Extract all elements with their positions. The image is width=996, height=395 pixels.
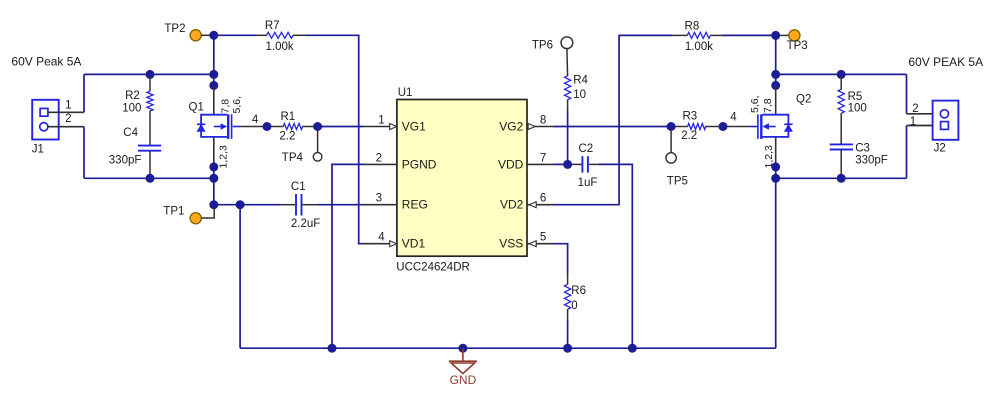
U1 pin 4 input arrow	[390, 241, 397, 247]
junction GND symbol node	[458, 344, 467, 353]
svg-text:J2: J2	[934, 143, 946, 155]
svg-text:5,6,: 5,6,	[231, 96, 243, 114]
svg-text:1: 1	[378, 115, 384, 127]
resistor R4 zigzag	[565, 76, 571, 100]
junction TP2 node	[209, 31, 218, 40]
svg-text:VD1: VD1	[402, 237, 426, 251]
svg-text:C2: C2	[579, 143, 594, 155]
Q2 gate lead	[749, 126, 757, 128]
wire VG2 pin to TP5 node	[554, 126, 668, 128]
test point TP2 pad	[190, 30, 201, 41]
C1 left lead	[281, 204, 295, 206]
svg-text:TP1: TP1	[163, 206, 184, 218]
connector J1 pin1 square pad	[40, 108, 48, 116]
junction C3 bottom on rail	[837, 174, 846, 183]
TP5 stub	[670, 131, 672, 153]
wire VD2 to R8	[554, 35, 673, 204]
wire TP2 stub	[201, 34, 210, 36]
wire Q2 source column	[775, 167, 777, 348]
R7 right lead	[293, 34, 306, 36]
svg-text:330pF: 330pF	[109, 154, 142, 166]
svg-text:2.2: 2.2	[681, 130, 697, 142]
R5 top lead	[840, 74, 842, 89]
test point TP5 pad	[666, 153, 676, 163]
wire bottom rail right	[776, 177, 907, 179]
Q2 gate bar	[757, 114, 759, 139]
R3 left lead	[676, 126, 688, 128]
junction Q2 gate node	[719, 122, 728, 131]
svg-text:5: 5	[540, 232, 546, 244]
wire J1 pin1 riser	[83, 74, 85, 112]
svg-text:C1: C1	[291, 181, 306, 193]
resistor R1 zigzag	[283, 124, 302, 130]
wire J2 pin1 dropper	[906, 126, 908, 179]
Q2 body-diode cathode bar	[784, 123, 792, 125]
junction drain column at top rail	[209, 70, 218, 79]
svg-text:R5: R5	[848, 91, 863, 103]
svg-text:VD2: VD2	[500, 198, 524, 212]
junction R2 top on rail	[146, 70, 155, 79]
capacitor C3 plates	[830, 144, 853, 149]
U1 pin 5 lead	[527, 243, 554, 245]
svg-text:TP3: TP3	[787, 40, 808, 52]
wire top rail right	[776, 73, 907, 75]
R1 right lead	[302, 126, 313, 128]
wire R7 to VD1	[306, 35, 364, 243]
svg-text:GND: GND	[450, 373, 477, 387]
junction PGND at bus	[328, 344, 337, 353]
wire J1 pin1 stub	[48, 111, 84, 113]
svg-text:6: 6	[540, 193, 546, 205]
svg-text:7,8: 7,8	[762, 98, 774, 113]
svg-text:2: 2	[376, 152, 382, 164]
svg-text:Q1: Q1	[189, 102, 204, 114]
svg-text:100: 100	[122, 102, 141, 114]
svg-text:1.00k: 1.00k	[266, 41, 294, 53]
connector J2 body	[933, 101, 959, 140]
junction C4 bottom on rail	[146, 174, 155, 183]
svg-text:4: 4	[252, 114, 259, 126]
R3 right lead	[706, 126, 719, 128]
wire C2 to bus	[599, 164, 632, 348]
wire J2 pin2 riser	[906, 74, 908, 113]
R8 left lead	[673, 34, 688, 36]
svg-text:Q2: Q2	[796, 93, 811, 105]
wire R2-C4 link	[149, 111, 151, 145]
svg-text:R7: R7	[265, 20, 280, 32]
connector J1 pin2 round pad	[40, 123, 48, 131]
wire J2 pin1 stub	[907, 125, 941, 127]
test point TP1 pad	[190, 213, 201, 224]
R1 left lead	[271, 126, 283, 128]
connector J2 pin2 round pad	[940, 110, 948, 118]
Q1 drain pin lead	[213, 85, 215, 114]
R4 bottom lead	[567, 100, 569, 111]
transistor Q1 body outline	[201, 115, 227, 137]
resistor R6 zigzag	[565, 284, 571, 309]
wire C1 to REG pin	[318, 204, 364, 206]
junction Q2 column at bottom rail	[771, 174, 780, 183]
R6 bottom lead	[567, 309, 569, 321]
Q1 source pin lead	[213, 137, 215, 167]
svg-text:4: 4	[378, 232, 385, 244]
U1 pin 2 lead	[363, 163, 397, 165]
Q1 gate bar	[231, 114, 233, 139]
wire R2 top lead	[149, 74, 151, 91]
svg-text:TP5: TP5	[667, 175, 688, 187]
svg-text:R2: R2	[125, 90, 140, 102]
junction C2 column at bus	[628, 344, 637, 353]
svg-text:2: 2	[912, 103, 918, 115]
svg-text:60V PEAK 5A: 60V PEAK 5A	[908, 55, 983, 69]
svg-text:330pF: 330pF	[855, 155, 888, 167]
U1 pin 8 lead	[527, 126, 554, 128]
junction source column at bottom rail	[209, 174, 218, 183]
svg-text:UCC24624DR: UCC24624DR	[396, 261, 470, 273]
junction Q2 drain node	[771, 81, 780, 90]
junction R5 top on rail	[837, 70, 846, 79]
C2 left lead	[572, 163, 582, 165]
Q2 channel bar	[760, 114, 762, 139]
wire TP1 node to C1 node	[214, 204, 240, 206]
Q1 channel bar	[227, 114, 229, 139]
connector J2 pin1 square pad	[941, 122, 949, 130]
wire C1 node to C1	[240, 204, 281, 206]
svg-text:0: 0	[571, 300, 577, 312]
wire Q1 source column	[213, 167, 215, 205]
svg-text:U1: U1	[398, 87, 413, 99]
R8 right lead	[710, 34, 722, 36]
ground symbol	[449, 348, 477, 373]
svg-text:R1: R1	[280, 111, 295, 123]
TP4 stub	[317, 131, 319, 153]
U1 pin 1 lead	[363, 126, 397, 128]
wire Q2 drain column	[775, 35, 777, 87]
R7 left lead	[256, 34, 266, 36]
junction Q1 source node	[209, 162, 218, 171]
svg-text:1,2,3: 1,2,3	[217, 145, 229, 169]
wire R8 to TP3 node	[723, 34, 776, 36]
C1 right lead	[303, 204, 318, 206]
resistor R5 zigzag	[838, 89, 844, 113]
U1 pin 6 lead	[527, 204, 554, 206]
svg-text:1: 1	[65, 100, 71, 112]
junction VDD node	[563, 160, 572, 169]
svg-text:VDD: VDD	[498, 157, 524, 171]
svg-text:5,6,: 5,6,	[749, 95, 761, 113]
svg-text:VG2: VG2	[499, 120, 523, 134]
U1 pin 5 input arrow	[529, 241, 536, 247]
svg-text:7,8: 7,8	[220, 99, 232, 114]
wire Q1 gate to node	[240, 126, 263, 128]
resistor R7 zigzag	[267, 32, 294, 38]
svg-text:7: 7	[540, 152, 546, 164]
wire C4 bottom lead	[149, 151, 151, 178]
Q1 gate lead	[233, 126, 241, 128]
connector J1 body	[32, 100, 59, 140]
transistor Q2 body outline	[763, 115, 789, 137]
junction Q1 drain node	[209, 81, 218, 90]
U1 pin 3 lead	[363, 204, 397, 206]
wire TP4 node to VG1 pin	[318, 126, 364, 128]
wire J2 pin2 stub	[907, 113, 941, 115]
svg-text:PGND: PGND	[402, 157, 437, 171]
resistor R3 zigzag	[688, 124, 706, 130]
capacitor C4 plates	[138, 146, 161, 151]
Q2 source arrow	[762, 123, 775, 129]
TP1 stub	[201, 207, 214, 219]
Q1 source arrow	[214, 123, 227, 129]
svg-text:C4: C4	[123, 127, 138, 139]
resistor R2 zigzag	[147, 91, 153, 111]
capacitor C2 plates	[582, 156, 588, 172]
svg-text:TP2: TP2	[164, 23, 185, 35]
junction C1 left node	[236, 200, 245, 209]
U1 pin 1 input arrow	[390, 124, 397, 130]
svg-text:2.2: 2.2	[279, 131, 295, 143]
U1 pin 6 input arrow	[529, 202, 536, 208]
wire bottom rail left	[84, 177, 214, 179]
wire GND bus	[240, 347, 776, 349]
svg-text:1: 1	[910, 116, 916, 128]
Q1 body-diode cathode bar	[197, 123, 205, 125]
junction R6 at bus	[563, 344, 572, 353]
svg-text:TP6: TP6	[532, 40, 553, 52]
wire VDD pin to node	[554, 163, 568, 165]
svg-text:3: 3	[376, 193, 382, 205]
svg-text:R3: R3	[682, 111, 697, 123]
svg-text:R6: R6	[571, 285, 586, 297]
C1 node dropper to bus	[239, 205, 241, 349]
junction Q1 gate node	[263, 122, 272, 131]
wire J1 pin2 dropper	[83, 127, 85, 179]
svg-text:10: 10	[573, 89, 586, 101]
junction TP4 node	[313, 122, 322, 131]
U1 pin 4 lead	[363, 243, 397, 245]
test point TP3 pad	[789, 30, 800, 41]
R6 top lead	[567, 274, 569, 285]
C2 right lead	[589, 163, 599, 165]
svg-text:R8: R8	[685, 21, 700, 33]
TP3 stub	[780, 34, 789, 36]
wire R6 to bus	[567, 321, 569, 348]
svg-text:2.2uF: 2.2uF	[291, 218, 320, 230]
U1 pin 7 lead	[527, 163, 554, 165]
svg-text:R4: R4	[573, 74, 588, 86]
svg-text:8: 8	[540, 115, 546, 127]
junction Q2 source node	[771, 162, 780, 171]
Q2 source pin lead	[775, 137, 777, 167]
svg-text:J1: J1	[32, 144, 44, 156]
junction TP3 node	[771, 31, 780, 40]
svg-text:TP4: TP4	[282, 152, 304, 164]
test point TP6 pad	[561, 37, 573, 49]
capacitor C1 plates	[296, 194, 302, 216]
wire Q2 gate node to gate	[728, 126, 750, 128]
junction TP5 node	[667, 122, 676, 131]
Q2 body-diode triangle	[785, 125, 793, 132]
Q1 body-diode triangle	[197, 125, 205, 132]
svg-text:REG: REG	[402, 198, 428, 212]
svg-text:2: 2	[65, 113, 71, 125]
junction TP1 node	[209, 200, 218, 209]
R5-C3 link	[840, 113, 842, 144]
TP6 stub to R4	[566, 49, 569, 76]
wire VSS to R6	[554, 244, 568, 274]
test point TP4 pad	[313, 153, 322, 162]
svg-text:60V Peak 5A: 60V Peak 5A	[11, 54, 81, 68]
svg-text:1.00k: 1.00k	[685, 41, 713, 53]
svg-text:VG1: VG1	[402, 120, 426, 134]
wire J1 pin2 stub	[48, 126, 84, 128]
wire top rail left	[84, 73, 214, 75]
junction Q2 column at top rail	[771, 70, 780, 79]
wire PGND to bus	[332, 164, 364, 348]
U1 pin 8 output arrow	[528, 124, 535, 130]
svg-text:1uF: 1uF	[578, 177, 598, 189]
resistor R8 zigzag	[687, 32, 710, 38]
op-amp U1 body (UCC24624DR)	[397, 100, 527, 257]
svg-text:VSS: VSS	[499, 237, 523, 251]
wire Q1 drain column	[213, 35, 215, 87]
svg-text:100: 100	[848, 103, 867, 115]
Q2 drain pin lead	[775, 85, 777, 114]
svg-text:4: 4	[730, 111, 737, 123]
svg-text:C3: C3	[855, 143, 870, 155]
wire R4 to VDD node	[567, 111, 569, 165]
C3 bottom lead	[840, 150, 842, 179]
wire TP2 node to R7	[214, 34, 256, 36]
